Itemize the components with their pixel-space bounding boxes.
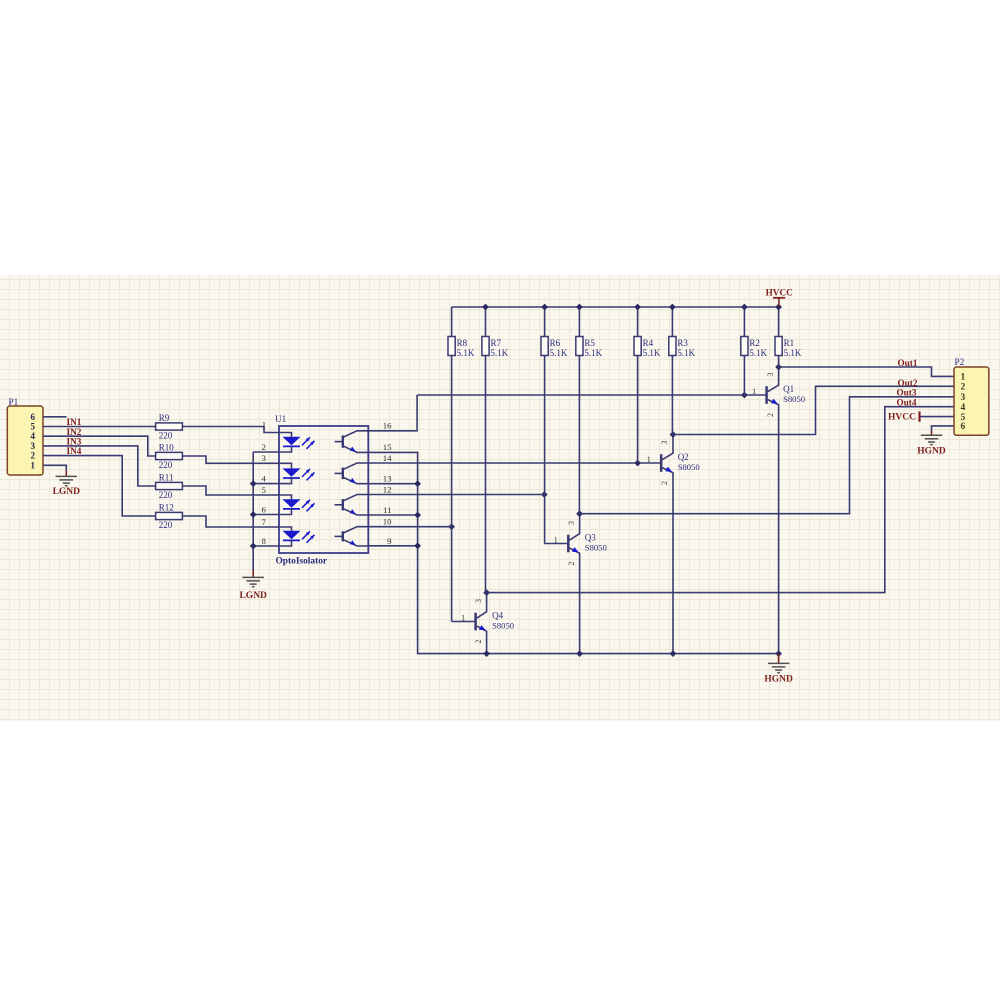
svg-text:IN4: IN4	[67, 446, 82, 456]
svg-text:2: 2	[961, 383, 966, 393]
svg-text:220: 220	[159, 430, 173, 440]
svg-text:Out2: Out2	[898, 378, 918, 388]
svg-text:R12: R12	[159, 503, 174, 513]
svg-text:4: 4	[262, 473, 267, 483]
svg-text:U1: U1	[275, 414, 287, 424]
svg-text:220: 220	[159, 520, 173, 530]
svg-text:3: 3	[474, 599, 483, 603]
svg-text:2: 2	[660, 481, 669, 485]
svg-text:15: 15	[383, 442, 392, 452]
svg-text:5.1K: 5.1K	[643, 348, 661, 358]
svg-text:7: 7	[262, 517, 267, 527]
svg-text:2: 2	[567, 562, 576, 566]
svg-text:3: 3	[567, 521, 576, 525]
svg-text:IN3: IN3	[67, 437, 82, 447]
svg-text:HVCC: HVCC	[766, 287, 793, 297]
svg-text:R11: R11	[159, 473, 174, 483]
svg-text:9: 9	[387, 536, 392, 546]
svg-text:2: 2	[474, 640, 483, 644]
svg-text:R6: R6	[550, 338, 561, 348]
svg-text:Q4: Q4	[492, 611, 503, 621]
svg-text:220: 220	[159, 460, 173, 470]
svg-text:4: 4	[31, 431, 36, 441]
svg-text:R4: R4	[643, 338, 654, 348]
svg-text:1: 1	[752, 387, 756, 396]
svg-text:Q1: Q1	[783, 384, 794, 394]
svg-text:P2: P2	[955, 357, 965, 367]
svg-text:HGND: HGND	[917, 447, 946, 457]
svg-text:1: 1	[554, 536, 558, 545]
svg-text:5.1K: 5.1K	[784, 348, 802, 358]
svg-text:S8050: S8050	[678, 462, 700, 472]
svg-text:R9: R9	[159, 413, 170, 423]
svg-text:12: 12	[383, 484, 392, 494]
svg-text:5.1K: 5.1K	[491, 348, 509, 358]
svg-text:5: 5	[31, 422, 36, 432]
svg-text:LGND: LGND	[239, 591, 267, 601]
svg-text:S8050: S8050	[585, 542, 607, 552]
svg-text:1: 1	[31, 460, 36, 470]
svg-text:11: 11	[383, 505, 391, 515]
svg-text:14: 14	[383, 453, 392, 463]
svg-text:IN2: IN2	[67, 427, 82, 437]
svg-text:R1: R1	[784, 338, 795, 348]
svg-text:3: 3	[766, 373, 775, 377]
svg-text:Out1: Out1	[898, 358, 918, 368]
svg-text:R10: R10	[159, 443, 175, 453]
svg-text:OptoIsolator: OptoIsolator	[276, 557, 328, 567]
svg-text:4: 4	[961, 403, 966, 413]
svg-text:1: 1	[961, 373, 966, 383]
svg-text:P1: P1	[9, 397, 19, 407]
svg-text:R5: R5	[584, 338, 595, 348]
svg-text:3: 3	[660, 441, 669, 445]
svg-text:IN1: IN1	[67, 417, 82, 427]
svg-text:1: 1	[647, 455, 651, 464]
svg-text:8: 8	[262, 536, 267, 546]
svg-text:S8050: S8050	[783, 394, 805, 404]
svg-text:Out3: Out3	[897, 387, 917, 397]
svg-text:3: 3	[961, 393, 966, 403]
svg-text:2: 2	[766, 413, 775, 417]
svg-text:5.1K: 5.1K	[457, 348, 475, 358]
svg-text:3: 3	[262, 453, 267, 463]
svg-text:5.1K: 5.1K	[749, 348, 767, 358]
svg-text:5.1K: 5.1K	[550, 348, 568, 358]
svg-text:13: 13	[383, 474, 392, 484]
svg-text:10: 10	[383, 517, 392, 527]
svg-text:3: 3	[31, 441, 36, 451]
svg-text:HVCC: HVCC	[888, 413, 916, 423]
svg-text:16: 16	[383, 421, 392, 431]
svg-text:2: 2	[31, 451, 36, 461]
svg-text:R8: R8	[457, 338, 468, 348]
svg-text:R2: R2	[749, 338, 760, 348]
svg-text:5.1K: 5.1K	[677, 348, 695, 358]
svg-text:HGND: HGND	[764, 675, 793, 685]
svg-text:R7: R7	[491, 338, 502, 348]
svg-text:R3: R3	[677, 338, 688, 348]
svg-text:220: 220	[159, 490, 173, 500]
svg-text:1: 1	[461, 614, 465, 623]
svg-text:Out4: Out4	[897, 398, 917, 408]
svg-text:5: 5	[262, 485, 267, 495]
svg-text:6: 6	[262, 504, 267, 514]
svg-text:2: 2	[262, 442, 266, 452]
svg-text:LGND: LGND	[53, 487, 81, 497]
svg-text:6: 6	[961, 422, 966, 432]
svg-text:Q3: Q3	[585, 533, 596, 543]
svg-text:5.1K: 5.1K	[584, 348, 602, 358]
svg-text:S8050: S8050	[492, 620, 514, 630]
svg-text:6: 6	[31, 412, 36, 422]
svg-text:Q2: Q2	[678, 452, 689, 462]
